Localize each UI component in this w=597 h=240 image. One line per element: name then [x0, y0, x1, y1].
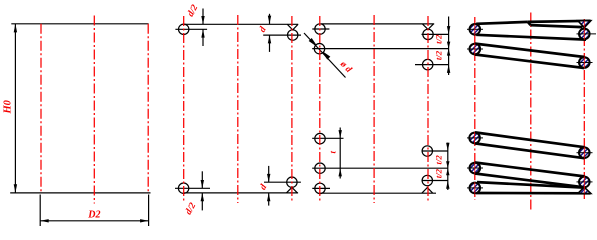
svg-text:t/2: t/2 [434, 168, 444, 178]
long line through B [312, 48, 449, 50]
coil2 upper tangent [475, 44, 584, 57]
D2 extension line left [39, 195, 41, 227]
tick L3 [467, 137, 483, 139]
centerline P4 right [583, 19, 585, 199]
H0 arrow up [14, 24, 17, 33]
ext line through D [415, 64, 449, 66]
wire circle I bottom-right [422, 175, 432, 185]
end wedge triangle bottom-right [422, 188, 433, 194]
red cross L1 [474, 24, 476, 36]
tick L5 [467, 187, 483, 189]
diameter leader line [304, 33, 346, 78]
wedge section bottom [578, 187, 591, 193]
tick R4 [577, 181, 593, 183]
stacked dim arrows bottom-right [446, 143, 449, 151]
bottom tangent line [319, 192, 436, 194]
ground flat top [528, 21, 591, 22]
d top arrows [268, 16, 271, 24]
svg-text:t/2: t/2 [434, 155, 444, 165]
bottom tangent line [184, 192, 298, 194]
d top dim shafts [269, 14, 271, 24]
tick L2 [467, 48, 483, 50]
ground flat bottom [476, 192, 591, 195]
ext line through H [422, 150, 448, 152]
d bottom arrows [267, 174, 270, 182]
top tangent line [184, 23, 298, 25]
d/2 top arrows [201, 16, 204, 24]
end wedge triangle bottom [286, 187, 297, 193]
tick R2 [577, 62, 593, 64]
red cross L5 [474, 182, 476, 194]
wedge section top [578, 21, 591, 28]
end wedge triangle top [287, 24, 298, 30]
d/2 top dim shafts [202, 9, 204, 25]
red cross R1 [583, 28, 585, 40]
centerline P4 axis [530, 13, 532, 211]
H0 arrow down [14, 184, 17, 193]
svg-text:t/2: t/2 [433, 50, 443, 60]
wire circle top-left [179, 24, 189, 34]
stacked dim shaft top-right [448, 17, 450, 76]
long line through F [312, 167, 448, 169]
coil tangent to wedge [531, 25, 583, 27]
wire section R2 [579, 57, 590, 68]
red cross R4 [583, 176, 585, 188]
tick through A [312, 28, 329, 30]
centerline P1 right [147, 24, 149, 193]
wire circle bottom-right [287, 177, 297, 187]
coil2 lower tangent [475, 55, 584, 69]
ext line through C [422, 33, 449, 35]
leader arrow lower [323, 52, 329, 58]
coil3 lower tangent [475, 143, 584, 158]
wire circle C top-right [423, 29, 433, 39]
centerline P3 right [427, 16, 429, 202]
red cross L4 [474, 162, 476, 174]
stacked dim shaft bottom-right [447, 143, 449, 190]
wire section L4 [470, 163, 481, 174]
red axis over wedge top [583, 21, 585, 28]
top edge line [11, 23, 148, 25]
wire circle B left [314, 44, 324, 54]
leader arrow upper [310, 39, 316, 45]
wire section R1 [579, 29, 590, 40]
centerline P2 axis [237, 15, 239, 203]
ext line through I [422, 180, 448, 182]
centerline P2 left [183, 16, 185, 202]
top-right end line [263, 34, 301, 36]
top wire line [175, 28, 207, 30]
coil1 lower tangent [476, 35, 586, 40]
svg-text:D2: D2 [87, 209, 100, 220]
grind step [528, 22, 531, 25]
coil4 upper tangent [475, 163, 584, 177]
wire section L5 [470, 183, 481, 194]
wire circle F bottom-left [315, 163, 325, 173]
wire circle E bottom-left [315, 133, 325, 143]
d/2 bottom arrows [201, 180, 204, 188]
coil cut line top [476, 22, 528, 24]
red cross L3 [474, 132, 476, 144]
t dim arrows [339, 130, 342, 138]
coil4 lower tangent [475, 174, 584, 188]
wire section R3 [579, 147, 590, 158]
wire section L2 [470, 44, 481, 55]
tick L1 [467, 28, 483, 30]
D2 arrow right [140, 219, 149, 222]
wire circle H bottom-right [422, 146, 432, 156]
d bottom dim shafts [268, 166, 270, 182]
wire circle A top-left [315, 24, 325, 34]
wire section R4 [579, 177, 590, 188]
wire section L1 [470, 24, 481, 35]
dimension H0 shaft [14, 24, 16, 193]
wire circle D right [423, 59, 433, 69]
wire circle top-right [288, 30, 298, 40]
centerline P1 left [40, 24, 42, 193]
stacked dim arrows top-right [447, 26, 450, 34]
red axis over wedge bottom [583, 187, 585, 193]
bottom wire line [175, 187, 210, 189]
top tangent line [321, 23, 434, 25]
centerline P4 left [474, 17, 476, 200]
svg-text:H0: H0 [2, 99, 13, 114]
dimension D2 shaft [40, 220, 148, 222]
wire circle bottom-left [178, 183, 188, 193]
tick L4 [467, 167, 483, 169]
tick R3 [577, 152, 593, 154]
bottom wire line [312, 187, 330, 189]
bottom edge line [10, 192, 150, 194]
centerline P2 right [291, 16, 293, 202]
wire section L3 [469, 133, 480, 144]
red cross L2 [474, 43, 476, 55]
centerline P1 axis [93, 16, 95, 204]
d/2 bottom dim shafts [201, 171, 203, 188]
centerline P3 axis [373, 15, 375, 203]
svg-text:t/2: t/2 [433, 34, 443, 44]
red cross R3 [583, 147, 585, 159]
coil3 upper tangent [475, 132, 584, 147]
wire circle G bottom-left [315, 183, 325, 193]
D2 arrow left [40, 219, 49, 222]
D2 extension line right [148, 195, 150, 227]
coil cut line bottom [477, 182, 584, 188]
bottom-right end line [264, 181, 301, 183]
t dim shaft [339, 128, 341, 179]
tick R1 [577, 33, 597, 35]
end wedge triangle top-right [422, 24, 433, 30]
t dim line through E [312, 137, 343, 139]
centerline P3 left [319, 16, 321, 202]
red cross R2 [583, 57, 585, 69]
